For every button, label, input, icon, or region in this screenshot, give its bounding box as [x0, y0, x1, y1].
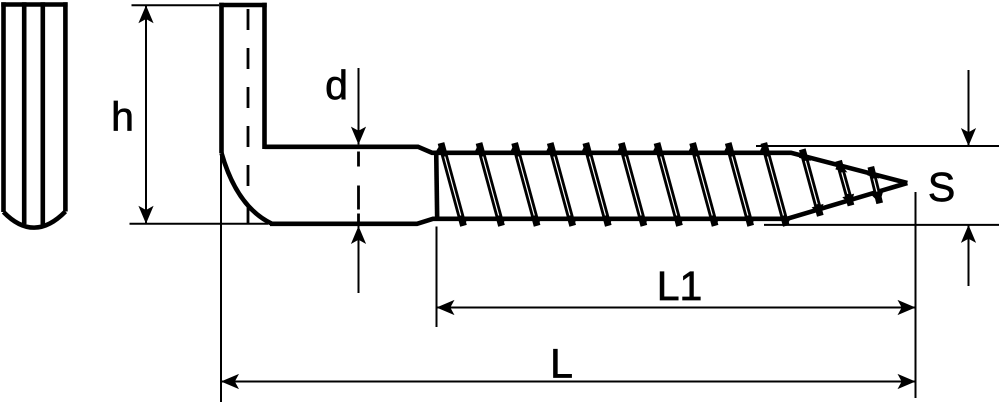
svg-text:d: d — [325, 62, 348, 108]
svg-text:L: L — [550, 341, 573, 387]
svg-text:S: S — [928, 164, 955, 210]
svg-text:h: h — [111, 94, 134, 140]
svg-text:L1: L1 — [657, 263, 703, 309]
